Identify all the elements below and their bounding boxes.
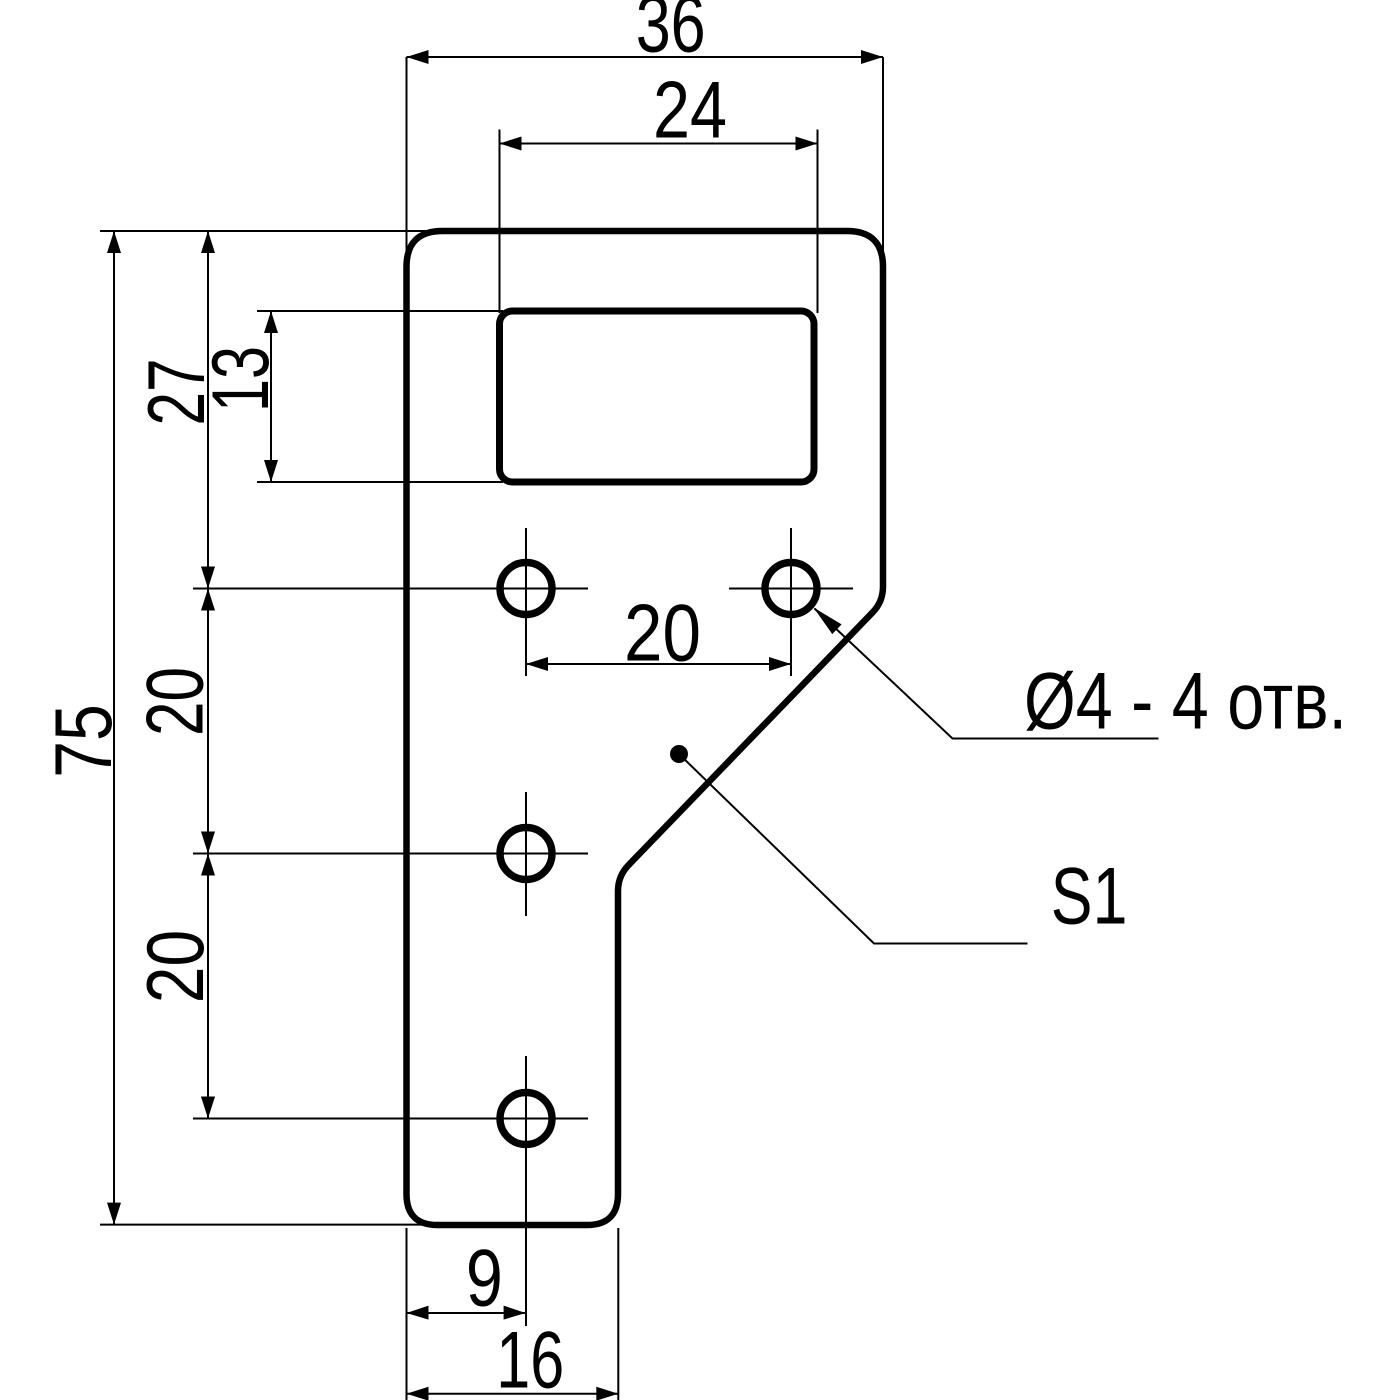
dimension 24 text — [653, 66, 727, 156]
plate outline — [407, 231, 884, 1225]
dimension 20 first text — [131, 667, 221, 736]
dimension 16 line — [407, 1387, 619, 1400]
dimension 36 text — [636, 0, 706, 70]
dimension 36 extension left — [406, 57, 408, 255]
hole H2 crosshair vertical — [790, 528, 792, 676]
extension line hole row 3 — [193, 1118, 588, 1120]
dimension 13 text — [196, 346, 286, 412]
dimension 13 extension bottom — [257, 481, 503, 483]
hole H1 crosshair vertical — [525, 528, 527, 676]
dimension 75 line — [107, 231, 121, 1225]
dimension 9 line — [407, 1306, 526, 1320]
dimension 9 text — [466, 1232, 503, 1323]
svg-text:75: 75 — [39, 704, 129, 778]
extension line top edge y231 — [100, 230, 437, 232]
dimension 24 line — [500, 137, 818, 151]
svg-text:Ø4 - 4 отв.: Ø4 - 4 отв. — [1024, 657, 1347, 747]
svg-text:20: 20 — [131, 667, 221, 736]
extension line hole row 1 — [193, 588, 588, 590]
dimension 75 text — [39, 704, 129, 778]
svg-text:S1: S1 — [1051, 852, 1128, 942]
dimension 16 text — [496, 1315, 564, 1400]
dimension 27 text — [132, 359, 222, 426]
svg-text:20: 20 — [624, 589, 701, 679]
dimension 36 line — [407, 50, 884, 64]
dimension 20 horizontal line — [526, 657, 791, 671]
hole H3 crosshair vertical — [525, 792, 527, 916]
dimension 20 second line — [201, 854, 215, 1119]
dimension 13 extension top — [257, 310, 503, 312]
hole H4 — [500, 1093, 552, 1145]
dimension 16 extension right — [617, 1228, 619, 1400]
leader S1 text — [1051, 852, 1128, 942]
slot — [500, 311, 815, 482]
dimension 36 extension right — [882, 57, 884, 255]
svg-text:20: 20 — [131, 930, 221, 1003]
extension line bottom edge y1225 — [100, 1224, 437, 1226]
leader S1 line — [679, 754, 1028, 944]
svg-text:9: 9 — [466, 1232, 503, 1323]
dimension 24 extension right — [817, 130, 819, 314]
hole H2 crosshair horizontal — [729, 588, 853, 590]
dimension 20 second text — [131, 930, 221, 1003]
hole H1 — [500, 563, 552, 615]
dimension 9 extension left / 16 extension left — [406, 1228, 408, 1400]
dimension 20 horizontal text — [624, 589, 701, 679]
svg-text:24: 24 — [653, 66, 727, 156]
leader S1 dot — [670, 745, 688, 763]
hole H2 — [765, 563, 817, 615]
leader diameter callout text — [1024, 657, 1347, 747]
dimension 13 line — [264, 311, 278, 482]
svg-text:16: 16 — [496, 1315, 564, 1400]
svg-text:36: 36 — [636, 0, 706, 70]
dimension 24 extension left — [499, 130, 501, 314]
leader diameter callout line — [814, 608, 1159, 739]
dimension 27 line — [201, 231, 215, 589]
dimension 20 first line — [201, 589, 215, 854]
hole H4 crosshair vertical and 9-dim extension — [525, 1056, 527, 1326]
hole H3 — [500, 828, 552, 880]
extension line hole row 2 — [193, 853, 588, 855]
svg-text:13: 13 — [196, 346, 286, 412]
